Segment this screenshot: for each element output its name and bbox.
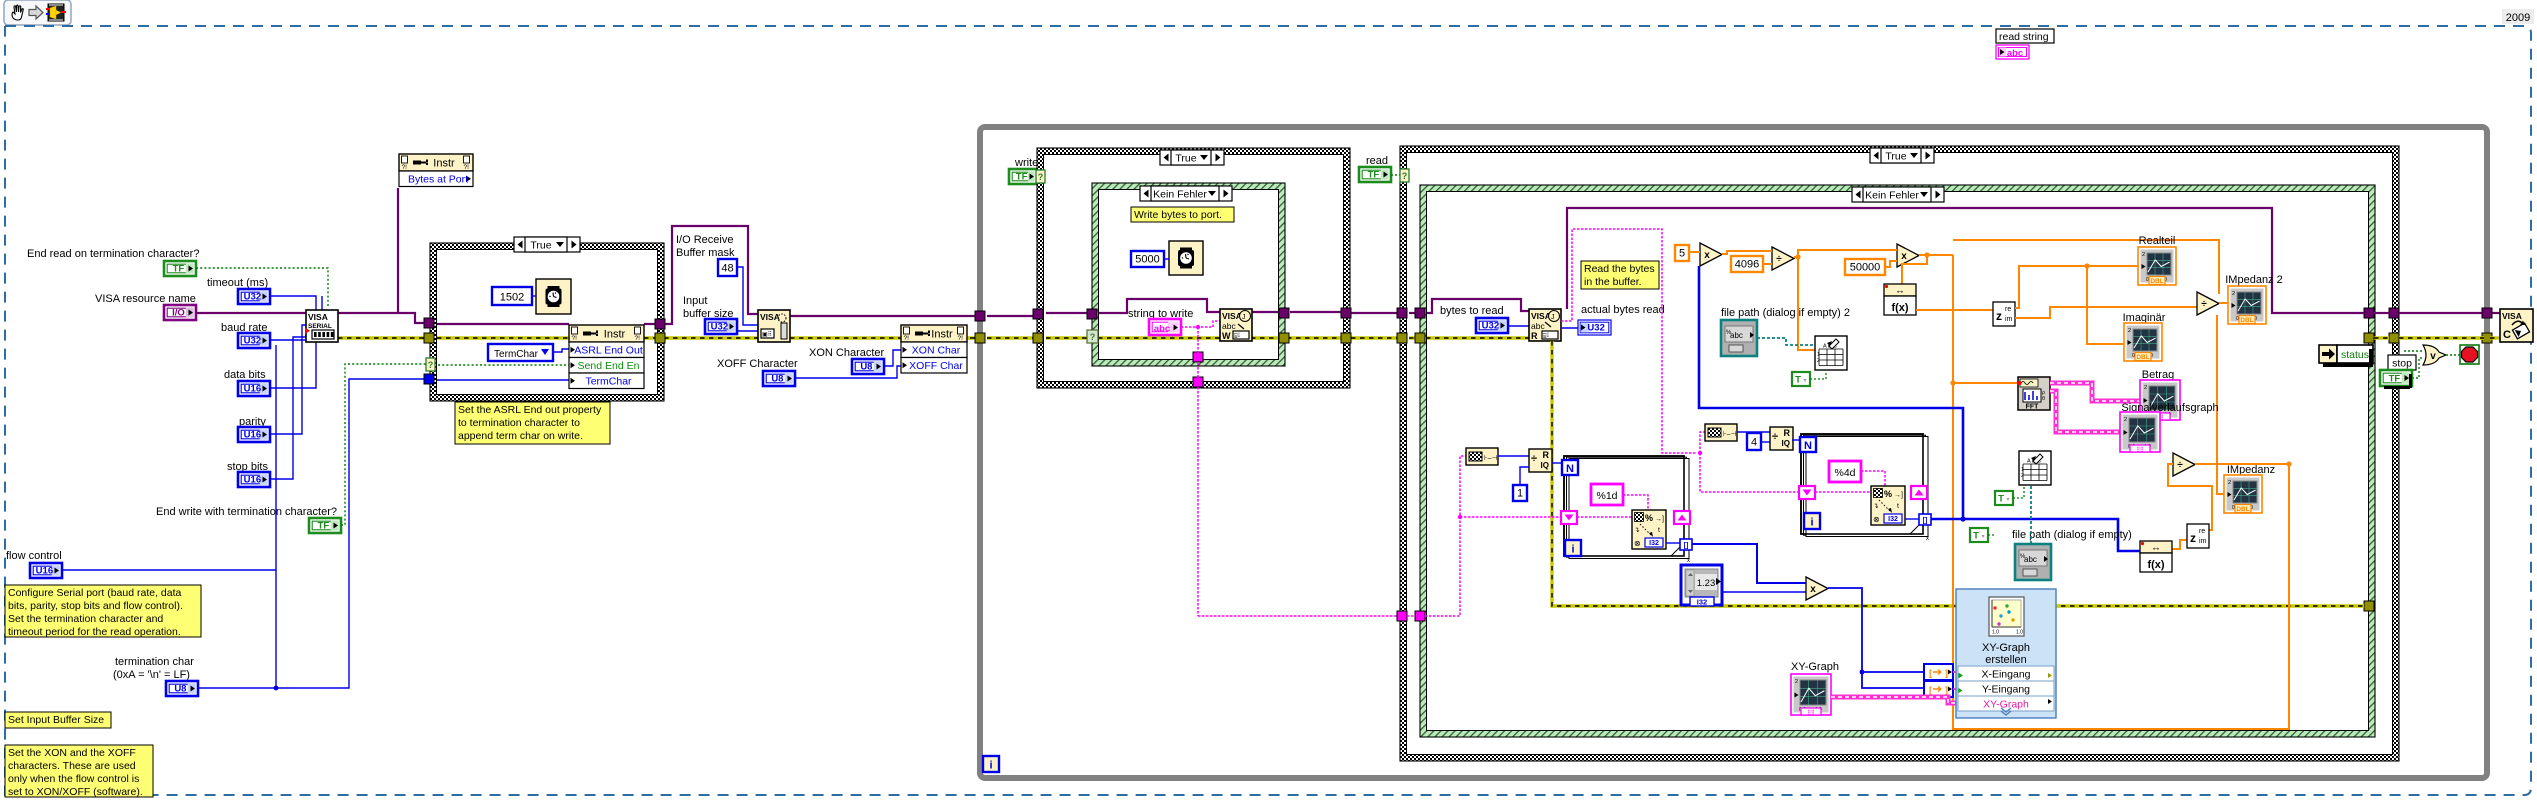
svg-text:4096: 4096	[1735, 259, 1759, 271]
constant 1502	[492, 287, 532, 305]
read string indicator (abc pink)	[1996, 45, 2029, 59]
wire: pink to scan2	[1815, 491, 1871, 493]
property node: Bytes at Port	[399, 154, 473, 187]
control: baud rate U32	[238, 333, 270, 348]
quotient-remainder 1	[1529, 449, 1552, 472]
svg-text:z: z	[2190, 531, 2196, 545]
VISA Set I/O Buffer Size icon	[758, 310, 790, 342]
svg-text:f(x): f(x)	[2147, 559, 2164, 571]
label: actual bytes read	[1581, 304, 1665, 316]
label: flow control	[6, 550, 62, 562]
graph indicator: Imaginaer	[2124, 323, 2162, 361]
complex to re/im z2	[2187, 524, 2209, 548]
svg-text:U16: U16	[244, 383, 261, 394]
svg-text:TermChar: TermChar	[585, 376, 632, 388]
count terminal N2	[1800, 437, 1816, 452]
svg-text:1.23: 1.23	[1697, 578, 1716, 589]
svg-text:⌸⠇: ⌸⠇	[1543, 333, 1551, 340]
svg-text:abc: abc	[1730, 331, 1743, 340]
wire: file path 2 teal	[1757, 338, 1815, 345]
convert to dynamic data 2	[1924, 681, 1953, 697]
svg-text:%1d: %1d	[1596, 490, 1617, 502]
control: termination char U8	[166, 681, 198, 696]
svg-text:]: ]	[1945, 668, 1948, 678]
tunnel: loop2 index in	[1799, 486, 1815, 499]
svg-text:T: T	[1795, 375, 1801, 386]
svg-text:TF: TF	[1368, 169, 1380, 180]
svg-text:[]: []	[1684, 543, 1689, 550]
wire: divide1 out junction	[1794, 250, 1897, 350]
wire: conv1 to XY express	[1953, 671, 1956, 673]
svg-text:W: W	[1222, 331, 1231, 341]
svg-text:÷: ÷	[1531, 453, 1537, 465]
wire: XY graph dashed to express	[1831, 697, 1956, 703]
boolean T constant 1	[1792, 372, 1810, 386]
svg-text:I32: I32	[1649, 540, 1659, 547]
wire: x3 to converters	[1828, 588, 1924, 688]
wire: %1d to scan1	[1623, 495, 1648, 511]
svg-text:VISA: VISA	[760, 312, 780, 322]
svg-text:read string: read string	[1999, 31, 2049, 43]
wire: stop dotted to or gate	[2404, 351, 2423, 378]
tunnel: read case purple right	[2389, 308, 2399, 318]
wire: z2 to divide imp	[2168, 464, 2212, 530]
svg-text:FFT: FFT	[2026, 404, 2040, 411]
write case border (True)	[1037, 148, 1350, 388]
case structure 1 border (True)	[430, 243, 664, 401]
tunnel: loop1 index in	[1561, 511, 1577, 524]
svg-text:Set the XON and the XOFF: Set the XON and the XOFF	[8, 747, 136, 759]
divide imp	[2173, 453, 2195, 476]
svg-text:z: z	[1996, 309, 2002, 323]
tunnel: KF read pink left	[1415, 611, 1425, 621]
wire: baud rate to VISA serial	[270, 296, 322, 340]
svg-text:VISA: VISA	[1531, 311, 1551, 321]
divide 1	[1772, 247, 1794, 270]
scan from string icon 2	[1871, 486, 1905, 525]
tunnel: loop1 index out	[1674, 511, 1690, 524]
svg-text:?!: ?!	[958, 335, 964, 342]
wire: TermChar ring to property node	[553, 349, 569, 352]
svg-text:U16: U16	[244, 474, 261, 485]
svg-text:%4d: %4d	[1834, 467, 1855, 479]
wire: vertical under divide imp2	[2217, 315, 2224, 494]
wire: FFT out to Betrag	[2050, 383, 2140, 401]
control: End write TF	[309, 518, 341, 533]
svg-text:[: [	[1929, 668, 1932, 678]
wire: %4d to scan2	[1861, 471, 1885, 487]
svg-text:I32: I32	[1697, 598, 1707, 607]
graph indicator: Signalverlaufsgraph	[2120, 412, 2160, 453]
express VI: XY-Graph erstellen	[1956, 589, 2056, 718]
svg-text:U16: U16	[36, 565, 53, 576]
comment: XON XOFF note	[5, 745, 153, 798]
tunnel: loop2 index out	[1911, 486, 1927, 499]
svg-text:2: 2	[2128, 328, 2131, 334]
svg-text:f(x): f(x)	[1891, 302, 1908, 314]
control: input buffer size U32	[705, 319, 737, 334]
control: write TF	[1009, 169, 1037, 184]
wire: purple while to write case	[987, 315, 1036, 317]
svg-text:⣿⣿: ⣿⣿	[2136, 447, 2143, 453]
count terminal N1	[1562, 460, 1578, 475]
toolbar hand icon	[12, 5, 23, 20]
label: write	[1014, 157, 1038, 169]
svg-text:Input: Input	[683, 295, 707, 307]
svg-text:1502: 1502	[500, 292, 524, 304]
wire: error cluster main run	[338, 336, 978, 339]
wire: data bits to VISA serial	[270, 318, 316, 388]
iteration terminal i1	[1565, 540, 1581, 556]
svg-text:append term char on write.: append term char on write.	[458, 430, 583, 442]
svg-text:U32: U32	[244, 291, 261, 302]
label: XON Character	[809, 347, 885, 359]
FFT icon	[2018, 377, 2051, 411]
control: data bits U16	[238, 381, 270, 396]
wire: 1 to riq1	[1520, 467, 1529, 485]
graph indicator: Realteil	[2138, 247, 2176, 285]
clock icon (wait ms) 1	[536, 279, 571, 314]
svg-text:TF: TF	[318, 520, 330, 531]
svg-text:÷: ÷	[2177, 460, 2183, 471]
svg-text:1.0: 1.0	[1992, 630, 1999, 636]
svg-text:TF: TF	[1016, 171, 1028, 182]
wire: pink into strlen1 area	[1498, 455, 1529, 457]
control: timeout U32	[238, 289, 270, 304]
svg-text:data bits: data bits	[224, 369, 266, 381]
wire: timeout to VISA serial	[270, 296, 316, 318]
for loop 1 frame	[1564, 456, 1690, 564]
label: bytes to read	[1440, 305, 1504, 317]
svg-text:2: 2	[2142, 252, 2145, 258]
label: Realteil	[2139, 235, 2176, 247]
svg-text:⌸⠇: ⌸⠇	[1234, 333, 1242, 340]
svg-text:End read on termination charac: End read on termination character?	[27, 248, 199, 260]
svg-text:VISA: VISA	[1222, 311, 1242, 321]
svg-text:DBL: DBL	[2136, 354, 2149, 361]
control: string to write abc	[1149, 319, 1181, 335]
svg-text:U8: U8	[771, 373, 783, 384]
convert to dynamic data 1	[1924, 664, 1953, 680]
svg-text:C: C	[2503, 329, 2511, 341]
svg-text:abc: abc	[1154, 324, 1170, 335]
svg-text:[: [	[1929, 685, 1932, 695]
tunnel: KF write purple left	[1087, 309, 1097, 319]
svg-text:im: im	[2199, 538, 2207, 545]
svg-text:Set the termination character: Set the termination character and	[8, 613, 163, 625]
multiply x3	[1806, 577, 1828, 600]
wire: pink string-to-write into read case	[1198, 456, 1561, 616]
wire: bytes to read to VISA read	[1508, 325, 1529, 327]
svg-text:↴: ↴	[1873, 503, 1879, 510]
svg-text:?!: ?!	[904, 335, 910, 342]
svg-text:⣿⣿: ⣿⣿	[1807, 710, 1814, 716]
svg-text:I/O Receive: I/O Receive	[676, 234, 733, 246]
wire: XOFF to property node	[795, 366, 901, 378]
graph indicator: IMpedanz	[2224, 475, 2262, 513]
wire: riq2 to N2	[1792, 439, 1800, 441]
constant 48	[718, 259, 737, 276]
svg-text:Read the bytes: Read the bytes	[1584, 263, 1655, 275]
svg-text:%: %	[1884, 489, 1892, 499]
svg-text:erstellen: erstellen	[1985, 654, 2027, 666]
multiply x1	[1700, 243, 1722, 266]
svg-text:[]: []	[1923, 518, 1928, 525]
wire: End read TF dotted to VISA serial	[196, 268, 328, 308]
comment: read bytes note	[1581, 261, 1659, 289]
control: End read TF	[164, 261, 196, 276]
svg-text:Realteil: Realteil	[2139, 235, 2176, 247]
stop button (red)	[2460, 345, 2479, 364]
comment: ASRL End out note	[455, 402, 610, 444]
svg-text:Configure Serial port (baud ra: Configure Serial port (baud rate, data	[8, 587, 182, 599]
svg-text:to termination character to: to termination character to	[458, 417, 580, 429]
label: Betrag	[2142, 369, 2174, 381]
comment: set input buffer size note	[5, 712, 111, 728]
svg-text:characters. These are used: characters. These are used	[8, 760, 136, 772]
wire: 5 to x1	[1689, 251, 1700, 253]
svg-text:⊗: ⊗	[1634, 539, 1641, 548]
tunnel: read case error right	[2389, 333, 2399, 343]
control: parity U16	[238, 427, 270, 442]
wire: riq1 to N1	[1552, 462, 1562, 464]
svg-text:status: status	[2341, 349, 2369, 361]
svg-text:timeout (ms): timeout (ms)	[207, 277, 268, 289]
tunnel: write case selector ?	[1036, 170, 1045, 183]
svg-text:read: read	[1366, 155, 1388, 167]
constant 4096	[1731, 256, 1763, 272]
svg-text:▾: ▾	[2006, 497, 2009, 503]
constant 50000	[1845, 259, 1885, 275]
kein fehler read selector label	[1852, 187, 1944, 202]
svg-text:2: 2	[2021, 473, 2024, 479]
formula node fx1	[1884, 284, 1916, 315]
svg-text:XON Character: XON Character	[809, 347, 885, 359]
svg-text:2: 2	[2228, 480, 2231, 486]
label: Imaginaer	[2123, 312, 2166, 324]
svg-text:ASRL End Out: ASRL End Out	[574, 345, 643, 357]
tunnel: case1 purple left	[424, 318, 434, 328]
tunnel: KF read purple left	[1415, 308, 1425, 318]
label: XY-Graph	[1791, 661, 1839, 673]
svg-text:file path (dialog if empty): file path (dialog if empty)	[2012, 529, 2132, 541]
svg-text:DBL: DBL	[2236, 506, 2249, 513]
tunnel: read case purple left	[1397, 308, 1407, 318]
label: file path (dialog if empty)	[2012, 529, 2132, 541]
svg-text:abc: abc	[1222, 321, 1236, 331]
wire: T1 dotted	[1810, 370, 1826, 379]
wire: actual bytes read	[1561, 327, 1578, 329]
wire: x1 to divide1	[1722, 251, 1772, 254]
VISA Write icon	[1220, 309, 1252, 341]
wire: 4 to riq2	[1761, 441, 1770, 443]
control: file path 1	[2015, 544, 2051, 580]
control: read TF	[1359, 167, 1391, 182]
wire: FFT out to Signalverlaufsgraph	[2050, 391, 2120, 432]
VISA Close icon	[2500, 309, 2533, 342]
label: IMpedanz	[2227, 464, 2275, 476]
svg-text:÷: ÷	[1776, 254, 1782, 265]
spreadsheet write icon 1	[1815, 336, 1847, 370]
svg-text:2: 2	[2124, 417, 2127, 423]
svg-text:SERIAL: SERIAL	[308, 323, 332, 330]
tunnel: while error left	[975, 333, 985, 343]
svg-text:TermChar: TermChar	[494, 349, 539, 360]
wire: scan2 out	[1905, 518, 1919, 520]
complex to re/im z1	[1993, 302, 2015, 326]
wire: pink to scan1	[1577, 516, 1632, 518]
svg-text:?: ?	[1402, 171, 1408, 181]
read case border (True)	[1400, 146, 2399, 761]
svg-text:Y-Eingang: Y-Eingang	[1982, 684, 2030, 696]
wire: purple VISA read up and right	[1567, 208, 2500, 313]
wire: file path 1 teal up	[2030, 485, 2032, 544]
constant 5000	[1131, 251, 1164, 267]
tunnel: loop2 array out	[1919, 514, 1931, 525]
svg-text:XOFF Character: XOFF Character	[717, 358, 798, 370]
svg-text:↔: ↔	[1895, 286, 1905, 297]
label: I/O Receive Buffer mask	[676, 234, 735, 259]
tunnel: read case error left	[1397, 333, 1407, 343]
indicator: status	[2319, 345, 2373, 367]
svg-text:x: x	[1926, 536, 1929, 542]
tunnel: KF write purple right	[1279, 308, 1289, 318]
graph indicator: IMpedanz 2	[2228, 286, 2266, 324]
svg-text:→]: →]	[1655, 516, 1664, 523]
ring constant TermChar	[488, 344, 553, 361]
svg-text:U16: U16	[244, 429, 261, 440]
wire: T2 dotted	[2013, 487, 2024, 498]
label: XOFF Character	[717, 358, 798, 370]
svg-text:▾: ▾	[1803, 378, 1806, 384]
svg-text:t: t	[1658, 527, 1660, 534]
svg-text:x: x	[1687, 558, 1690, 564]
wire: strlen2 to riq2	[1737, 431, 1770, 433]
quotient-remainder 2	[1770, 427, 1793, 450]
svg-text:TF: TF	[2389, 373, 2401, 384]
svg-text:2009: 2009	[2506, 12, 2530, 24]
string length icon 1	[1466, 448, 1498, 465]
multiply x2	[1897, 244, 1919, 267]
tunnel: write case purple left	[1033, 309, 1043, 319]
wire: T3 dotted	[1988, 534, 1996, 536]
control: XOFF U8	[763, 371, 795, 386]
svg-text:R: R	[1543, 450, 1550, 460]
wire: orange main vertical	[1950, 240, 2289, 729]
tunnel: case1 blue left	[424, 374, 434, 384]
control: VISA resource name I/O	[164, 305, 196, 320]
tunnel: case1 purple right	[655, 319, 665, 329]
svg-text:1: 1	[1517, 488, 1523, 500]
svg-text:TF: TF	[173, 263, 185, 274]
or gate	[2423, 345, 2446, 365]
tunnel: write case purple right	[1341, 308, 1351, 318]
svg-text:Kein Fehler: Kein Fehler	[1865, 190, 1919, 202]
constant 4	[1747, 433, 1761, 450]
svg-text:?!: ?!	[572, 335, 578, 342]
wire: x2 out to fx1 and main vertical	[1902, 252, 1953, 284]
formula node fx2	[2140, 541, 2172, 572]
wire: divide imp out	[2195, 461, 2292, 466]
svg-text:?!: ?!	[402, 164, 408, 171]
tunnel: loop1 array out	[1680, 539, 1692, 550]
svg-text:True: True	[530, 240, 551, 252]
svg-text:set to XON/XOFF (software).: set to XON/XOFF (software).	[8, 786, 143, 798]
wire: fx2 to z2	[2172, 540, 2187, 549]
svg-text:R: R	[1784, 428, 1791, 438]
boolean T constant 2	[1995, 491, 2013, 505]
svg-text:re: re	[2005, 306, 2011, 313]
svg-text:actual bytes read: actual bytes read	[1581, 304, 1665, 316]
svg-text:1.0: 1.0	[2016, 630, 2023, 636]
toolbar background	[4, 0, 71, 25]
wire: 5000 to clock2	[1164, 258, 1169, 260]
svg-text:?!: ?!	[464, 164, 470, 171]
svg-text:stop: stop	[2392, 358, 2412, 370]
svg-text:?: ?	[1090, 332, 1096, 342]
tunnel: while purple right	[2482, 308, 2492, 318]
svg-text:abc: abc	[1531, 321, 1545, 331]
while loop border	[980, 127, 2487, 778]
svg-text:N: N	[1566, 463, 1574, 475]
wire: XON to property node	[884, 350, 901, 366]
svg-text:Send End En: Send End En	[578, 360, 640, 372]
toolbar run arrow icon	[29, 6, 43, 19]
svg-text:2: 2	[1817, 358, 1820, 364]
property node: ASRL End Out	[569, 325, 644, 389]
svg-text:U8: U8	[860, 361, 872, 372]
kein fehler read case border	[1420, 185, 2375, 737]
format constant %4d	[1829, 461, 1861, 482]
svg-text:Buffer mask: Buffer mask	[676, 247, 735, 259]
label: file path (dialog if empty) 2	[1721, 307, 1850, 319]
property node: XON/XOFF Char	[901, 325, 967, 373]
label: timeout (ms)	[207, 277, 268, 289]
svg-text:θ: θ	[2042, 396, 2045, 402]
wire: z1 re to Realteil and Imaginaer	[2015, 263, 2138, 344]
divide imp2	[2197, 292, 2219, 315]
wire: 48 to buffer icon	[737, 267, 758, 325]
svg-text:]: ]	[1945, 685, 1948, 695]
constant 1	[1513, 485, 1527, 501]
svg-text:▾: ▾	[1981, 534, 1984, 540]
tunnel: while error right	[2482, 333, 2492, 343]
svg-text:J: J	[1551, 314, 1555, 321]
wire: error across write case	[1046, 336, 1529, 339]
tunnel: case1 error left	[424, 333, 434, 343]
svg-text:?: ?	[428, 360, 434, 370]
svg-text:2: 2	[1795, 679, 1798, 685]
label: data bits	[224, 369, 266, 381]
svg-text:Instr: Instr	[604, 329, 626, 341]
tunnel: write case error right	[1341, 333, 1351, 343]
read string label	[1996, 29, 2054, 43]
wire: 1.23 to x3	[1722, 591, 1806, 593]
indicator: actual bytes read U32	[1578, 320, 1611, 335]
svg-text:Kein Fehler: Kein Fehler	[1153, 189, 1207, 201]
svg-text:i: i	[1571, 544, 1574, 556]
wire: 4096 to divide1	[1763, 263, 1772, 265]
svg-text:DBL: DBL	[2240, 317, 2253, 324]
svg-text:Instr: Instr	[931, 329, 953, 341]
wire: loop2 array to x1 and fx2	[1699, 266, 2140, 551]
label: VISA resource name	[95, 293, 196, 305]
svg-text:bits, parity, stop bits and fl: bits, parity, stop bits and flow control…	[8, 600, 183, 612]
svg-text:im: im	[2005, 316, 2013, 323]
svg-text:XY-Graph: XY-Graph	[1983, 699, 2029, 711]
wire: 1502 to clock	[532, 295, 536, 297]
tunnel: KF write selector error	[1087, 330, 1098, 343]
